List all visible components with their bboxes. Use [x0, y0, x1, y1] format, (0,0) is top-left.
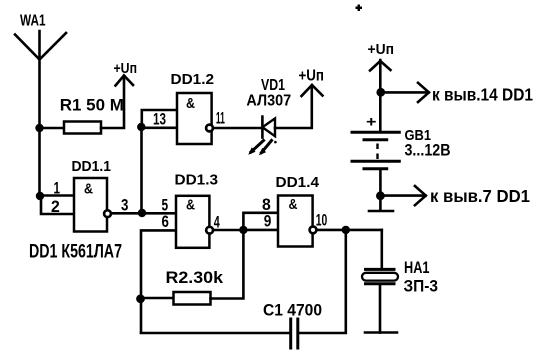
gate DD1.2 output inversion circle pin 11: [206, 125, 213, 132]
power +Up arrow (right): [370, 60, 391, 92]
wire battery top lead: [379, 92, 382, 131]
wire bottom rail right up to pin10 node: [298, 230, 346, 333]
wire pin 12: [141, 127, 177, 130]
svg-text:к выв.7 DD1: к выв.7 DD1: [430, 186, 530, 206]
gate DD1.1: [74, 178, 107, 232]
wire R2 left: [141, 297, 174, 300]
svg-text:WA1: WA1: [20, 13, 46, 30]
wire bottom rail left: [141, 332, 291, 335]
svg-text:+: +: [366, 113, 377, 130]
svg-text:DD1.2: DD1.2: [171, 71, 215, 88]
wire stub pin 13: [142, 110, 177, 127]
wire battery bottom lead: [379, 169, 382, 196]
node DD1.2 input junction: [137, 123, 145, 131]
wire R1 to +Up: [101, 77, 124, 128]
wire to pin14 arrow: [381, 83, 429, 102]
svg-text:&: &: [186, 95, 195, 112]
svg-text:R2.30k: R2.30k: [166, 268, 224, 287]
wire pin 10 to HA1: [317, 229, 382, 232]
svg-text:11: 11: [216, 109, 225, 128]
svg-text:4: 4: [214, 212, 220, 231]
capacitor C1: [291, 319, 298, 348]
wire antenna to R1: [40, 127, 65, 130]
svg-text:+Uп: +Uп: [368, 41, 395, 58]
wire pin 9: [243, 229, 278, 232]
svg-text:HA1: HA1: [404, 258, 430, 277]
antenna WA1: [15, 31, 66, 128]
wire node up to pin 8: [243, 213, 278, 230]
wire pin 6 from feedback: [141, 230, 176, 332]
LED VD1 diode: [262, 117, 275, 138]
gate DD1.2: [177, 93, 212, 144]
svg-text:1: 1: [54, 179, 61, 198]
svg-text:DD1 К561ЛА7: DD1 К561ЛА7: [29, 241, 122, 263]
wire LED to +Up (mid): [275, 86, 312, 128]
LED VD1 emission arrows: [248, 141, 277, 156]
node pin10/C1 junction: [342, 226, 350, 234]
svg-text:3...12В: 3...12В: [405, 141, 451, 160]
gate DD1.3: [176, 196, 209, 248]
resistor R1: [64, 122, 101, 134]
svg-text:C1 4700: C1 4700: [263, 301, 322, 320]
svg-text:9: 9: [264, 212, 272, 231]
wire junction up to DD1.2 inputs: [140, 127, 143, 213]
wire buzzer bottom terminator: [365, 331, 397, 334]
resistor R2: [174, 292, 211, 305]
svg-text:R1 50 M: R1 50 M: [60, 95, 124, 114]
svg-text:+Uп: +Uп: [299, 68, 325, 85]
wire R2 right to node: [211, 230, 244, 299]
svg-text:ЗП-3: ЗП-3: [404, 276, 439, 295]
wire buzzer bottom: [379, 284, 382, 333]
svg-text:&: &: [84, 181, 93, 198]
wire pin 5: [142, 212, 176, 215]
node battery plus junction: [376, 88, 385, 97]
svg-text:6: 6: [162, 212, 169, 231]
svg-text:13: 13: [153, 109, 166, 128]
svg-text:&: &: [289, 196, 298, 213]
gate DD1.3 output inversion circle pin 4: [206, 227, 213, 234]
wire pin 11 to LED: [214, 127, 263, 130]
svg-text:DD1.1: DD1.1: [72, 158, 112, 175]
node DD1.1 input junction: [36, 192, 44, 200]
buzzer HA1: [362, 269, 398, 283]
gate DD1.4 output inversion circle pin 10: [310, 227, 317, 234]
power +Up arrow (left): [116, 76, 134, 86]
wire battery minus terminator: [379, 196, 382, 210]
gate DD1.1 output inversion circle pin 3: [104, 210, 111, 217]
node R2 left junction: [136, 294, 145, 303]
wire antenna node down to DD1.1: [38, 128, 41, 196]
svg-text:&: &: [186, 197, 195, 214]
stray speck top: [356, 5, 363, 12]
wire pin10 node to buzzer: [380, 230, 383, 270]
wire stub to pin2: [41, 196, 74, 214]
svg-text:2: 2: [51, 197, 60, 216]
svg-text:10: 10: [316, 211, 328, 230]
svg-text:+Uп: +Uп: [114, 60, 138, 77]
node pin4/8/9/R2 junction: [239, 226, 247, 234]
svg-text:DD1.3: DD1.3: [175, 172, 219, 189]
node battery minus junction: [376, 191, 385, 200]
node antenna junction: [35, 124, 43, 132]
svg-text:к выв.14 DD1: к выв.14 DD1: [432, 85, 533, 105]
svg-text:3: 3: [121, 195, 128, 214]
svg-text:АЛ307: АЛ307: [246, 92, 291, 109]
battery GB1: [352, 132, 399, 169]
wire to pin7 arrow: [380, 186, 425, 205]
node pin3/pin5 junction: [138, 209, 146, 217]
power +Up arrow (mid): [302, 85, 323, 96]
svg-text:DD1.4: DD1.4: [276, 174, 320, 191]
wire pin 3: [112, 212, 143, 215]
svg-text:VD1: VD1: [261, 77, 285, 94]
gate DD1.4: [278, 196, 313, 247]
wire pin 4 to node: [214, 229, 244, 232]
wire pin1: [40, 194, 74, 197]
